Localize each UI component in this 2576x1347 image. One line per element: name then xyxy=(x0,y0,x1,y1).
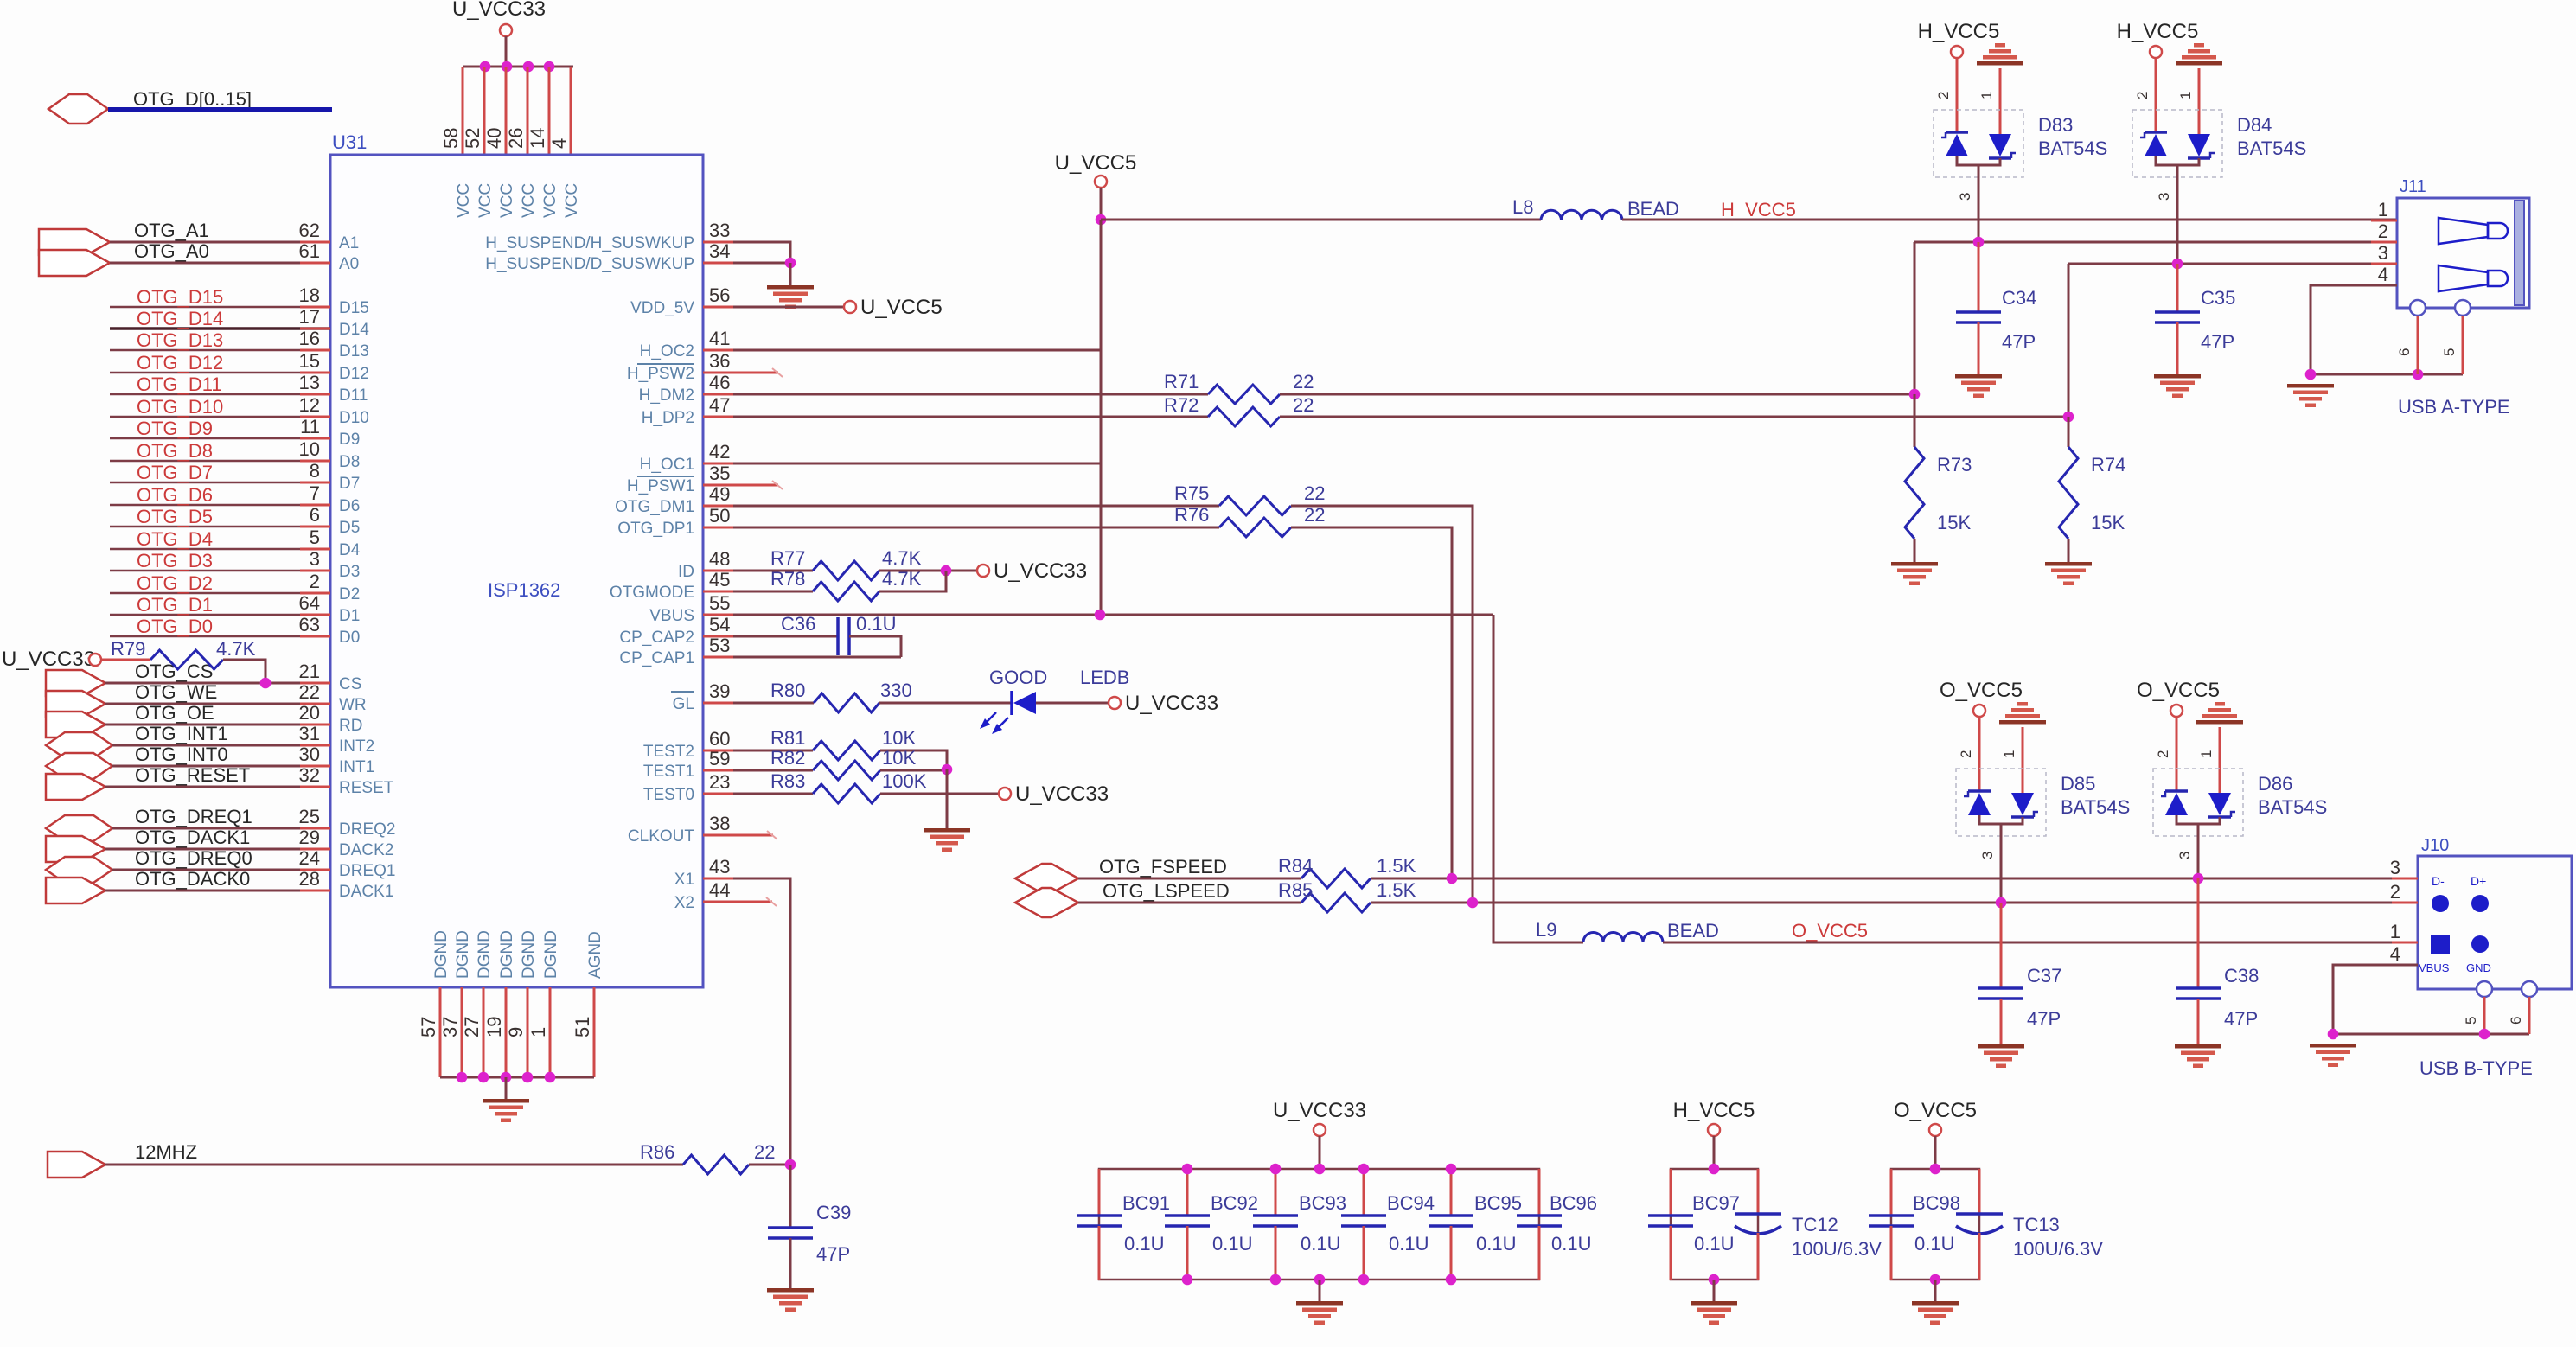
wire VCC pin 26 stub xyxy=(527,67,529,155)
label C35 xyxy=(2201,287,2235,309)
wire C34 stem xyxy=(1978,242,1980,312)
svg-text:D12: D12 xyxy=(339,365,369,383)
svg-text:U_VCC5: U_VCC5 xyxy=(1055,151,1137,175)
pin name A0 xyxy=(339,255,359,273)
wire pin38 stub xyxy=(703,831,777,839)
wire C38 to gnd xyxy=(2197,999,2200,1044)
wire pin23 TEST0 xyxy=(703,793,813,795)
svg-text:28: 28 xyxy=(299,868,320,890)
svg-text:1: 1 xyxy=(2198,750,2215,758)
ground (IC) xyxy=(483,1099,529,1122)
port OTG_LSPEED xyxy=(1015,888,1078,917)
junction DGND bar x585 xyxy=(501,1072,512,1083)
label BC91 xyxy=(1122,1192,1170,1214)
wire DGND pin 9 stub xyxy=(527,987,529,1077)
svg-text:55: 55 xyxy=(709,592,730,614)
wire OTG_D8 xyxy=(110,460,330,463)
pin number 25 (DREQ2) xyxy=(299,806,320,827)
resistor R77 xyxy=(813,561,879,580)
label R74 xyxy=(2091,454,2125,476)
pin number 30 (INT1) xyxy=(299,744,320,765)
svg-text:OTG_D0: OTG_D0 xyxy=(137,616,213,637)
svg-text:15K: 15K xyxy=(1937,512,1971,533)
pin number 43 (X1) xyxy=(709,856,730,878)
resistor R78 xyxy=(813,582,879,601)
wire R72 out xyxy=(1280,264,2068,417)
value BAT54S (D86) xyxy=(2258,796,2327,818)
svg-text:WR: WR xyxy=(339,696,367,714)
wire H_VCC5 stem (BC97) xyxy=(1713,1136,1716,1169)
svg-text:OTG_D11: OTG_D11 xyxy=(137,373,222,395)
wire R81 out xyxy=(880,750,947,769)
svg-text:10K: 10K xyxy=(882,747,916,769)
svg-text:D0: D0 xyxy=(339,629,360,647)
wire pin35 stub xyxy=(703,481,783,489)
value 4.7K (R77) xyxy=(882,547,922,569)
svg-text:L9: L9 xyxy=(1536,919,1556,941)
svg-text:100U/6.3V: 100U/6.3V xyxy=(2013,1238,2103,1260)
svg-text:4: 4 xyxy=(2378,264,2388,285)
svg-text:OTG_DACK0: OTG_DACK0 xyxy=(135,868,250,890)
label D85 xyxy=(2061,773,2095,795)
connector J10 body xyxy=(2418,856,2572,989)
label R71 xyxy=(1164,371,1199,393)
svg-text:100U/6.3V: 100U/6.3V xyxy=(1792,1238,1882,1260)
label R78 xyxy=(770,568,805,590)
wire O_VCC5 stem (BC98) xyxy=(1934,1136,1937,1169)
wire FSPEED to J10 pin3 xyxy=(1371,878,2418,880)
wire BC98 gnd stem xyxy=(1934,1280,1937,1301)
pin number 61 (A0) xyxy=(299,240,320,262)
value BAT54S (D84) xyxy=(2237,137,2306,159)
pin name A1 xyxy=(339,234,359,252)
wire ground bus bar xyxy=(440,1076,594,1079)
svg-text:38: 38 xyxy=(709,813,730,834)
wire VCC pin 14 stub xyxy=(548,67,551,155)
svg-text:4.7K: 4.7K xyxy=(882,547,922,569)
pin name INT2 xyxy=(339,737,374,756)
svg-text:22: 22 xyxy=(754,1141,775,1163)
pin name OTG_DP1 xyxy=(617,520,694,538)
svg-text:33: 33 xyxy=(709,220,730,241)
wire OTG_D9 xyxy=(110,437,330,440)
pin number 3 (D3) xyxy=(310,548,320,570)
junction J10 gnd xyxy=(2479,1029,2490,1040)
pin name DREQ1 xyxy=(339,862,395,880)
pin number 3 (D85) xyxy=(1979,852,1996,859)
ground (C34) xyxy=(1955,374,2002,398)
svg-text:VCC: VCC xyxy=(563,183,581,218)
resistor R75 xyxy=(1219,496,1291,515)
svg-text:OTG_A1: OTG_A1 xyxy=(134,220,209,241)
svg-text:10: 10 xyxy=(299,438,320,460)
svg-text:OTG_DREQ0: OTG_DREQ0 xyxy=(135,847,252,869)
ground (R74) xyxy=(2045,562,2092,585)
wire OTG_D1 xyxy=(110,614,330,616)
pin number 53 (CP_CAP1) xyxy=(709,635,730,656)
svg-text:GL: GL xyxy=(673,695,694,713)
value 100U/6.3V (TC12) xyxy=(1792,1238,1882,1260)
svg-text:U_VCC33: U_VCC33 xyxy=(1273,1099,1366,1122)
junction BC bottom x1577 xyxy=(1358,1274,1370,1286)
svg-text:H_VCC5: H_VCC5 xyxy=(1721,199,1796,220)
junction VCC bar x586 xyxy=(502,61,513,73)
pin number 9 xyxy=(505,1027,527,1037)
junction J11 gnd b xyxy=(2413,369,2424,380)
pin number 8 (D7) xyxy=(310,460,320,482)
wire OTG_D2 xyxy=(110,592,330,595)
junction J10 gnd left xyxy=(2328,1029,2339,1040)
junction BC bottom x1475 xyxy=(1270,1274,1282,1286)
wire pin60 TEST2 xyxy=(703,750,813,752)
junction VBUS xyxy=(1095,610,1106,621)
pin number 63 (D0) xyxy=(299,614,320,635)
port OTG_D[0..15] bus tag xyxy=(48,94,108,124)
wire pin44 stub xyxy=(703,897,777,906)
svg-text:2: 2 xyxy=(1935,92,1952,99)
value 100K (R83) xyxy=(882,770,927,792)
capacitor C35 xyxy=(2155,312,2200,322)
svg-text:H_SUSPEND/D_SUSWKUP: H_SUSPEND/D_SUSWKUP xyxy=(485,255,694,273)
label C39 xyxy=(816,1202,851,1223)
wire J11 pin4 xyxy=(2311,285,2463,374)
J10 shield pin b xyxy=(2522,981,2537,997)
svg-text:TC12: TC12 xyxy=(1792,1214,1838,1235)
svg-text:INT2: INT2 xyxy=(339,737,374,756)
wire J11 shield 6 xyxy=(2417,316,2419,374)
svg-text:OTG_INT1: OTG_INT1 xyxy=(135,723,228,744)
wire gnd stem 33/34 xyxy=(789,263,792,285)
wire OTG_OE xyxy=(105,724,330,726)
net label OTG_D6 xyxy=(137,484,213,506)
label R85 xyxy=(1278,879,1313,901)
svg-text:R86: R86 xyxy=(640,1141,674,1163)
value 4.7K (R78) xyxy=(882,568,922,590)
svg-text:D7: D7 xyxy=(339,475,360,493)
svg-text:J11: J11 xyxy=(2400,177,2426,196)
svg-text:DACK2: DACK2 xyxy=(339,841,393,859)
port OTG_RESET xyxy=(46,774,105,800)
power O_VCC5 circle (D85) xyxy=(1973,705,1985,717)
pin number 5 (J11) xyxy=(2441,348,2458,356)
wire D86 pin3 xyxy=(2197,824,2200,878)
svg-text:C39: C39 xyxy=(816,1202,851,1223)
svg-text:0.1U: 0.1U xyxy=(1389,1233,1429,1254)
svg-text:47: 47 xyxy=(709,394,730,416)
svg-text:U_VCC33: U_VCC33 xyxy=(1125,692,1218,715)
power H_VCC5 circle (D83) xyxy=(1951,46,1963,58)
svg-text:R82: R82 xyxy=(770,747,805,769)
junction BC97 top xyxy=(1709,1164,1720,1175)
pin number 37 xyxy=(439,1017,461,1037)
svg-text:OTG_D[0..15]: OTG_D[0..15] xyxy=(133,88,252,110)
svg-text:4: 4 xyxy=(548,138,570,149)
net label OTG_DACK0 xyxy=(135,868,250,890)
svg-text:0.1U: 0.1U xyxy=(1212,1233,1252,1254)
wire D84 common rail xyxy=(2156,156,2199,165)
svg-text:R71: R71 xyxy=(1164,371,1199,393)
svg-text:OTGMODE: OTGMODE xyxy=(610,584,694,602)
svg-text:U_VCC33: U_VCC33 xyxy=(452,0,546,21)
J11 pin 4 stub xyxy=(2371,284,2397,287)
value 4.7K (R79) xyxy=(216,638,256,660)
wire H_VCC5 rail left xyxy=(1101,219,1541,221)
port OTG_A0 xyxy=(39,250,110,276)
pin name VCC (52) xyxy=(476,183,495,218)
svg-text:330: 330 xyxy=(880,680,912,701)
svg-text:40: 40 xyxy=(483,128,505,149)
wire R79 to CS xyxy=(223,660,265,683)
capacitor C36 xyxy=(838,617,849,655)
wire D86 common rail xyxy=(2176,815,2220,824)
svg-text:C38: C38 xyxy=(2224,965,2259,986)
svg-text:18: 18 xyxy=(299,284,320,306)
ground (J11) xyxy=(2287,384,2334,407)
pin number 48 (ID) xyxy=(709,548,730,570)
junction FSPEED/R76 xyxy=(1447,873,1458,884)
wire VCC pin 40 stub xyxy=(505,67,508,155)
pin number 57 xyxy=(418,1017,439,1037)
power U_VCC33 circle (R83) xyxy=(999,788,1011,800)
pin number 35 (H_PSW1) xyxy=(709,463,730,484)
value 47P (C38) xyxy=(2224,1008,2258,1030)
label C36 xyxy=(781,613,815,635)
value 0.1U (BC91) xyxy=(1124,1233,1164,1254)
J11 pin number 1 xyxy=(2378,199,2388,220)
pin name DGND (37) xyxy=(454,930,472,979)
svg-text:27: 27 xyxy=(461,1017,483,1037)
svg-text:6: 6 xyxy=(2396,348,2413,356)
power U_VCC5 circle (pin56) xyxy=(844,301,856,313)
resistor R80 xyxy=(814,693,879,712)
value 100U/6.3V (TC13) xyxy=(2013,1238,2103,1260)
junction BC97 bottom xyxy=(1709,1274,1720,1286)
net label 12MHZ xyxy=(135,1141,197,1163)
label R72 xyxy=(1164,394,1199,416)
pin name X1 xyxy=(674,871,694,889)
svg-text:R85: R85 xyxy=(1278,879,1313,901)
wire R74 to gnd xyxy=(2068,539,2070,562)
J11 pin number 2 xyxy=(2378,220,2388,242)
svg-text:TEST2: TEST2 xyxy=(643,743,694,761)
svg-text:0.1U: 0.1U xyxy=(1476,1233,1516,1254)
svg-text:BAT54S: BAT54S xyxy=(2258,796,2327,818)
label R76 xyxy=(1174,504,1209,526)
label BC92 xyxy=(1211,1192,1258,1214)
J10 pin number 2 xyxy=(2390,881,2400,903)
svg-text:OTG_D9: OTG_D9 xyxy=(137,418,213,439)
svg-text:49: 49 xyxy=(709,483,730,505)
wire U_VCC5 vertical xyxy=(1100,220,1103,615)
svg-text:L8: L8 xyxy=(1512,196,1533,218)
pin number 50 (OTG_DP1) xyxy=(709,505,730,527)
wire pin46 H_DM2 xyxy=(703,393,1208,396)
svg-text:BEAD: BEAD xyxy=(1667,920,1719,942)
label R86 xyxy=(640,1141,674,1163)
svg-text:1.5K: 1.5K xyxy=(1377,855,1416,877)
capacitor C38 xyxy=(2176,988,2221,999)
J10 contact GND xyxy=(2471,935,2489,953)
value 0.1U (BC94) xyxy=(1389,1233,1429,1254)
svg-text:R76: R76 xyxy=(1174,504,1209,526)
junction BC top x1526 xyxy=(1314,1164,1326,1175)
label R84 xyxy=(1278,855,1313,877)
svg-text:2: 2 xyxy=(310,571,320,592)
label USB A-TYPE xyxy=(2398,396,2510,418)
J11 pin 1 stub xyxy=(2371,220,2397,222)
pin name DGND (27) xyxy=(476,930,494,979)
junction DGND bar x636 xyxy=(545,1072,556,1083)
wire DGND pin 27 stub xyxy=(483,987,485,1077)
power O_VCC5 circle (D86) xyxy=(2170,705,2183,717)
pin name VDD_5V xyxy=(630,299,694,317)
net label OTG_D[0..15] xyxy=(133,88,252,110)
power U_VCC33 text (R77) xyxy=(994,559,1087,583)
junction VCC bar x561 xyxy=(480,61,491,73)
pin number 7 (D6) xyxy=(310,482,320,504)
svg-text:D2: D2 xyxy=(339,585,360,603)
wire OTG_D6 xyxy=(110,504,330,507)
wire VCC pin 4 stub xyxy=(570,67,572,155)
svg-text:O_VCC5: O_VCC5 xyxy=(1894,1099,1977,1122)
svg-text:C36: C36 xyxy=(781,613,815,635)
value 0.1U (BC95) xyxy=(1476,1233,1516,1254)
svg-text:LEDB: LEDB xyxy=(1080,667,1129,688)
pin name H_DP2 xyxy=(642,409,694,427)
svg-text:1: 1 xyxy=(1978,92,1995,99)
pin name AGND xyxy=(586,931,604,979)
wire D83 pin1 xyxy=(1999,68,2002,134)
label C34 xyxy=(2002,287,2036,309)
pin number 6 (D5) xyxy=(310,504,320,526)
pin number 26 xyxy=(505,128,527,149)
wire J11 pin3 net xyxy=(2068,263,2397,265)
svg-text:DREQ1: DREQ1 xyxy=(339,862,395,880)
port OTG_OE xyxy=(46,712,105,737)
svg-text:1: 1 xyxy=(2390,921,2400,942)
capacitor BC96 xyxy=(1517,1169,1562,1280)
capacitor C37 xyxy=(1978,988,2023,999)
svg-text:D8: D8 xyxy=(339,453,360,471)
svg-text:R74: R74 xyxy=(2091,454,2125,476)
pin name DGND (57) xyxy=(432,930,451,979)
net label OTG_D1 xyxy=(137,594,213,616)
svg-text:CLKOUT: CLKOUT xyxy=(628,827,694,846)
pin number 1 (D84) xyxy=(2177,92,2194,99)
svg-text:1: 1 xyxy=(527,1027,549,1037)
wire pin43 X1 xyxy=(703,878,790,1165)
svg-text:DGND: DGND xyxy=(498,930,516,979)
pin name CP_CAP1 xyxy=(619,649,694,667)
svg-text:O_VCC5: O_VCC5 xyxy=(1940,679,2023,702)
power O_VCC5 circle (BC98) xyxy=(1929,1124,1941,1136)
junction R72/R74 xyxy=(2063,412,2074,423)
label R83 xyxy=(770,770,805,792)
pin number 6 (J10) xyxy=(2508,1017,2524,1025)
svg-text:A1: A1 xyxy=(339,234,359,252)
svg-text:51: 51 xyxy=(572,1017,593,1037)
wire OTG_D14 xyxy=(110,327,330,330)
pin name H_DM2 xyxy=(639,386,694,405)
junction BC bottom x1526 xyxy=(1314,1274,1326,1286)
svg-text:TC13: TC13 xyxy=(2013,1214,2060,1235)
J11 shield pin 5 xyxy=(2455,300,2471,316)
power U_VCC33 net label xyxy=(452,0,546,21)
svg-text:22: 22 xyxy=(299,681,320,703)
wire J11 shield 5 xyxy=(2462,316,2464,374)
net label OTG_D7 xyxy=(137,462,213,483)
diode D86 element B xyxy=(2208,793,2235,817)
power U_VCC5 net label xyxy=(1055,151,1137,175)
pin name D2 xyxy=(339,585,360,603)
svg-text:41: 41 xyxy=(709,328,730,349)
svg-text:VBUS: VBUS xyxy=(649,607,694,625)
pin number 4 xyxy=(548,138,570,149)
svg-text:D5: D5 xyxy=(339,519,360,537)
power H_VCC5 text (D83) xyxy=(1918,20,2000,43)
pin name WR xyxy=(339,696,367,714)
wire D83 pin2 xyxy=(1956,58,1959,132)
pin number 22 (WR) xyxy=(299,681,320,703)
junction BC98 bottom xyxy=(1930,1274,1941,1286)
wire H_VCC5 rail right xyxy=(1622,219,2397,221)
power U_VCC5 circle xyxy=(1095,176,1107,188)
LED D_LEDB xyxy=(980,691,1036,734)
net label OTG_INT0 xyxy=(135,744,228,765)
pin name VCC (4) xyxy=(563,183,581,218)
wire R73 stem xyxy=(1914,394,1916,447)
svg-text:47P: 47P xyxy=(2002,331,2036,353)
svg-text:32: 32 xyxy=(299,764,320,786)
svg-text:10K: 10K xyxy=(882,727,916,749)
value BAT54S (D85) xyxy=(2061,796,2130,818)
wire U_VCC33 stem xyxy=(505,36,508,67)
svg-text:2: 2 xyxy=(2155,750,2171,758)
svg-text:CS: CS xyxy=(339,675,361,693)
svg-text:GND: GND xyxy=(2466,961,2491,974)
label R73 xyxy=(1937,454,1972,476)
svg-text:INT1: INT1 xyxy=(339,758,374,776)
J10 pin number 3 xyxy=(2390,857,2400,878)
wire pin48 ID xyxy=(703,570,813,572)
svg-text:47P: 47P xyxy=(2201,331,2234,353)
value 330 (R80) xyxy=(880,680,912,701)
J10 pin 3 stub xyxy=(2392,878,2418,880)
value 47P (C34) xyxy=(2002,331,2036,353)
svg-text:OTG_DM1: OTG_DM1 xyxy=(615,498,694,516)
label D83 xyxy=(2038,114,2073,136)
resistor R74 xyxy=(2059,447,2078,539)
capacitor BC94 xyxy=(1341,1169,1386,1280)
svg-text:DACK1: DACK1 xyxy=(339,883,393,901)
power H_VCC5 circle (BC97) xyxy=(1708,1124,1720,1136)
port OTG_DREQ1 xyxy=(46,815,112,841)
resistor R83 xyxy=(813,784,880,803)
svg-text:22: 22 xyxy=(1304,482,1325,504)
svg-text:30: 30 xyxy=(299,744,320,765)
wire D84 pin1 xyxy=(2198,68,2201,134)
resistor R84 xyxy=(1301,869,1371,888)
wire OTG_DREQ1 xyxy=(112,827,330,830)
wire U_VCC5 stem xyxy=(1100,188,1103,220)
svg-text:OTG_DACK1: OTG_DACK1 xyxy=(135,827,250,848)
svg-text:57: 57 xyxy=(418,1017,439,1037)
power O_VCC5 text (BC98) xyxy=(1894,1099,1977,1122)
junction BC top x1373 xyxy=(1182,1164,1193,1175)
wire OTG_D4 xyxy=(110,548,330,551)
svg-text:22: 22 xyxy=(1293,394,1314,416)
label L8 xyxy=(1512,196,1533,218)
